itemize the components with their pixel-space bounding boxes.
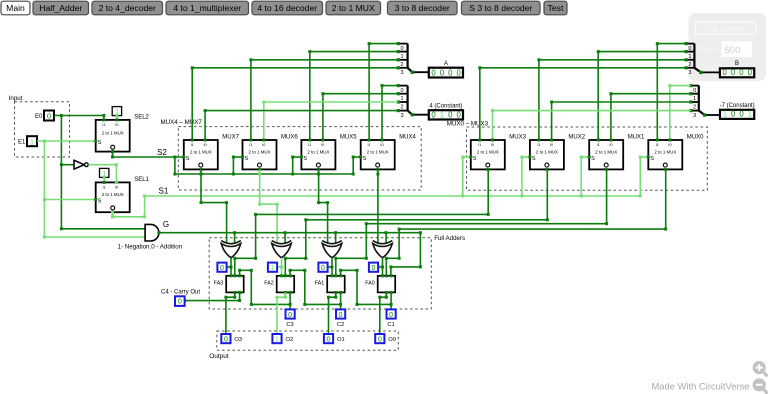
wire FA0 carry-out to C1 LED — [390, 292, 392, 309]
svg-text:0: 0 — [723, 68, 728, 77]
wire MUX3 output to FA3 B input — [487, 169, 489, 214]
svg-text:FA1: FA1 — [315, 281, 324, 287]
svg-text:O0: O0 — [388, 337, 396, 343]
svg-text:0: 0 — [321, 265, 325, 272]
svg-text:1: 1 — [748, 110, 752, 119]
wire G to FA0 carry-in — [391, 233, 421, 276]
2-to-1 MUX MUX7 — [184, 140, 218, 169]
input E1 — [27, 136, 37, 146]
svg-text:S: S — [186, 156, 190, 162]
wire S2 riser to MUX5 S — [292, 157, 294, 174]
svg-text:0: 0 — [220, 265, 224, 272]
svg-text:Input: Input — [9, 95, 23, 102]
wire tap to XOR1 value LED — [327, 266, 332, 268]
svg-text:I0: I0 — [609, 143, 612, 147]
svg-text:2 to 1 MUX: 2 to 1 MUX — [477, 150, 499, 155]
svg-text:4 to 1_multiplexer: 4 to 1_multiplexer — [173, 3, 241, 13]
svg-text:Output: Output — [209, 353, 229, 360]
svg-text:S: S — [532, 156, 536, 162]
svg-text:G: G — [163, 220, 169, 229]
svg-text:2 to 1 MUX: 2 to 1 MUX — [367, 150, 389, 155]
svg-text:O2: O2 — [286, 337, 294, 343]
dashed box: Input region — [15, 102, 70, 157]
svg-text:Full Screen: Full Screen — [704, 23, 747, 33]
output LED xorval2 — [268, 263, 277, 272]
2-to-1 MUX MUX1 — [589, 140, 623, 169]
svg-text:A: A — [444, 61, 448, 67]
svg-text:3 to 8 decoder: 3 to 8 decoder — [395, 3, 450, 13]
svg-text:I1: I1 — [597, 143, 600, 147]
svg-text:3: 3 — [401, 70, 404, 76]
constant 1 (above SEL1) — [100, 168, 109, 177]
wire S2 riser to MUX4 S — [352, 157, 354, 174]
svg-text:1: 1 — [271, 265, 275, 272]
output LED xorval3 — [217, 263, 226, 272]
wire E0 to SEL2 I1 — [54, 115, 104, 117]
wire A bit0 to MUX4 I1 — [369, 43, 398, 45]
zoom out button — [753, 378, 768, 393]
svg-text:SEL2: SEL2 — [134, 114, 149, 120]
svg-text:0: 0 — [739, 68, 744, 77]
svg-text:Main: Main — [6, 3, 25, 13]
2-to-1 MUX SEL2 — [96, 120, 130, 152]
svg-text:0: 0 — [448, 68, 453, 77]
svg-text:B: B — [735, 61, 739, 67]
svg-text:Made With CircuitVerse: Made With CircuitVerse — [652, 380, 750, 391]
svg-text:S: S — [363, 156, 367, 162]
svg-text:S: S — [303, 156, 307, 162]
wire S1 bus to right MUX group — [145, 195, 641, 197]
2-to-1 MUX MUX5 — [301, 140, 335, 169]
wire XOR1 output to FA1 A input — [331, 258, 333, 276]
svg-text:0: 0 — [178, 299, 182, 306]
full adder FA1 — [327, 276, 345, 293]
svg-text:C4 - Carry Out: C4 - Carry Out — [161, 290, 200, 296]
wire const1 to SEL1 I1 — [103, 177, 105, 182]
wire G tap to XOR4 input — [385, 233, 387, 244]
wire FA2 carry-out to C3 LED — [289, 292, 291, 309]
svg-text:I0: I0 — [491, 143, 494, 147]
svg-text:1: 1 — [275, 337, 279, 344]
svg-text:MUX3: MUX3 — [509, 135, 526, 141]
wire carry bus segment FA0.cout to FA1.cin — [357, 303, 391, 305]
svg-text:0: 0 — [327, 337, 331, 344]
svg-text:MUX7: MUX7 — [222, 135, 239, 141]
wire G tap to XOR1 input — [234, 233, 236, 244]
svg-text:S1: S1 — [159, 186, 169, 195]
wire carry bus segment FA2.cout to FA3.cin — [251, 303, 290, 305]
svg-text:0: 0 — [440, 68, 445, 77]
svg-text:S2: S2 — [157, 148, 167, 157]
svg-text:0: 0 — [748, 68, 753, 77]
wire S2 from SEL2 output to MUX7 S — [112, 152, 114, 157]
wire B bit2 to MUX2 I1 — [539, 59, 686, 61]
XOR gate X1 — [322, 243, 342, 257]
splitter for 4 (Constant) bus — [398, 85, 407, 87]
wire S1 riser to MUX2 S — [521, 157, 523, 196]
wire MUX4 output to XOR4 input — [377, 169, 379, 243]
dashed box: Full Adders region — [209, 238, 431, 309]
XOR gate X3 — [221, 243, 241, 257]
svg-text:2 to 1 MUX: 2 to 1 MUX — [332, 3, 375, 13]
svg-text:3: 3 — [688, 70, 691, 76]
wire MUX2 output to FA2 B input — [546, 169, 548, 219]
wire tap to XOR2 value LED — [277, 266, 282, 268]
output LED O1 — [324, 334, 333, 343]
input E0 — [44, 111, 54, 121]
svg-text:C1: C1 — [387, 322, 394, 328]
2-to-1 MUX MUX2 — [530, 140, 564, 169]
wire G tap to XOR2 input — [284, 233, 286, 244]
svg-text:I1: I1 — [478, 143, 481, 147]
svg-text:1: 1 — [440, 110, 444, 119]
svg-text:FA0: FA0 — [365, 281, 374, 287]
svg-text:2 to 1 MUX: 2 to 1 MUX — [102, 131, 124, 136]
wire E1 branch down to SEL1 S and AND gate — [43, 141, 45, 237]
2-to-1 MUX MUX4 — [361, 140, 395, 169]
overlay properties panel — [689, 13, 767, 81]
svg-text:S: S — [650, 156, 654, 162]
svg-text:0: 0 — [448, 110, 453, 119]
AND gate G — [145, 224, 159, 241]
svg-text:S: S — [98, 199, 102, 205]
svg-text:2 to 1 MUX: 2 to 1 MUX — [307, 150, 329, 155]
svg-text:FA3: FA3 — [214, 281, 223, 287]
dashed box: Output region — [217, 331, 398, 350]
svg-text:S: S — [473, 156, 477, 162]
wire S1 riser to MUX3 S — [462, 157, 464, 196]
svg-text:3: 3 — [693, 113, 696, 119]
svg-text:2: 2 — [693, 104, 696, 110]
wire MUX5 output to XOR3 input — [319, 169, 328, 243]
wire S1 riser to MUX0 S — [639, 157, 641, 196]
wire 4const bit2 to MUX6 I0 (value 1) — [264, 101, 399, 103]
wire S1 riser to MUX1 S — [580, 157, 582, 196]
zoom in button — [753, 361, 768, 376]
output LED C3 — [286, 309, 295, 318]
splitter for -7 (Constant) bus — [691, 85, 699, 87]
wire S2 bus lower run — [174, 157, 176, 174]
svg-text:S 3 to 8 decoder: S 3 to 8 decoder — [469, 3, 532, 13]
dashed box: MUX0 - MUX3 region — [467, 127, 708, 190]
wire B bit3 to MUX3 I1 — [480, 67, 686, 69]
svg-text:I1: I1 — [656, 143, 659, 147]
wire 4const bit1 to MUX5 I0 — [323, 93, 398, 95]
wire MUX6 output to XOR2 input (value 1) — [260, 169, 277, 243]
full adder FA2 — [277, 276, 295, 293]
svg-text:MUX2: MUX2 — [568, 135, 585, 141]
svg-text:MUX0: MUX0 — [687, 135, 704, 141]
splitter for A bus — [398, 43, 407, 45]
svg-text:E0: E0 — [35, 114, 43, 120]
svg-text:2 to 1 MUX: 2 to 1 MUX — [595, 150, 617, 155]
output LED C4 carry out — [175, 296, 185, 306]
svg-text:0: 0 — [431, 110, 436, 119]
svg-text:MUX4: MUX4 — [399, 135, 416, 141]
svg-text:I0: I0 — [115, 123, 118, 127]
wire FA0 sum to output O0 — [380, 292, 387, 334]
output LED C2 — [336, 309, 345, 318]
svg-text:2 to 1 MUX: 2 to 1 MUX — [536, 150, 558, 155]
svg-text:0: 0 — [372, 265, 376, 272]
XOR gate X0 — [373, 243, 393, 257]
svg-text:S: S — [98, 140, 102, 146]
svg-text:SEL1: SEL1 — [134, 177, 149, 183]
svg-text:4 to 16 decoder: 4 to 16 decoder — [257, 3, 317, 13]
svg-text:MUX4 – MUX7: MUX4 – MUX7 — [161, 119, 203, 126]
2-to-1 MUX MUX6 — [243, 140, 277, 169]
wire -7 bit0 to MUX0 I0 (value 1) — [670, 85, 691, 87]
wire B bit1 to MUX1 I1 — [598, 51, 686, 53]
svg-text:FA2: FA2 — [264, 281, 273, 287]
svg-text:I1: I1 — [102, 123, 105, 127]
svg-text:4 (Constant): 4 (Constant) — [429, 104, 462, 110]
svg-text:I1: I1 — [537, 143, 540, 147]
output LED O0 — [375, 334, 384, 343]
svg-text:MUX1: MUX1 — [628, 135, 645, 141]
wire 4const bit0 to MUX4 I0 — [382, 85, 398, 87]
svg-text:C3: C3 — [286, 322, 293, 328]
svg-text:S: S — [244, 156, 248, 162]
wire A bit2 to MUX6 I1 — [251, 59, 398, 61]
output LED xorval1 — [318, 263, 327, 272]
wire B bit0 to MUX0 I1 — [657, 43, 686, 45]
full adder FA0 — [378, 276, 396, 293]
svg-text:I1: I1 — [103, 186, 106, 190]
svg-text:S: S — [591, 156, 595, 162]
svg-text:0: 0 — [378, 337, 382, 344]
2-to-1 MUX MUX3 — [471, 140, 505, 169]
wire -7 bit3 to MUX3 I0 (value 1) — [493, 110, 691, 112]
svg-text:Full Adders: Full Adders — [434, 235, 465, 242]
svg-text:1- Negation,0 - Addition: 1- Negation,0 - Addition — [118, 244, 183, 251]
wire XOR3 output to FA3 A input — [230, 258, 232, 276]
svg-text:0: 0 — [456, 110, 461, 119]
wire S2 riser to MUX6 S — [232, 157, 234, 174]
svg-text:0: 0 — [339, 312, 343, 319]
2-to-1 MUX SEL1 — [96, 182, 130, 212]
svg-text:Half_Adder: Half_Adder — [39, 3, 82, 13]
svg-text:I0: I0 — [115, 186, 118, 190]
wire FA2 sum to output O2 — [277, 292, 285, 334]
svg-text:0: 0 — [731, 68, 736, 77]
svg-text:1: 1 — [30, 137, 34, 146]
svg-text:MUX5: MUX5 — [340, 135, 357, 141]
svg-text:I0: I0 — [321, 143, 324, 147]
wire MUX7 output to XOR1 input — [201, 169, 227, 243]
svg-text:2 to 1 MUX: 2 to 1 MUX — [190, 150, 212, 155]
wire const1 to SEL2 I0 — [116, 116, 118, 120]
svg-text:MUX0 – MUX3: MUX0 – MUX3 — [447, 121, 489, 128]
svg-text:-7 (Constant): -7 (Constant) — [720, 103, 755, 109]
svg-text:0: 0 — [456, 68, 461, 77]
svg-text:1: 1 — [723, 110, 727, 119]
output LED O2 — [272, 334, 281, 343]
svg-text:0: 0 — [731, 110, 736, 119]
svg-text:0: 0 — [431, 68, 436, 77]
wire FA3 carry-out to C4 LED — [239, 292, 241, 300]
svg-text:2 to 1 MUX: 2 to 1 MUX — [249, 150, 271, 155]
svg-text:Test: Test — [548, 3, 564, 13]
svg-text:2 to 1 MUX: 2 to 1 MUX — [654, 150, 676, 155]
svg-text:500: 500 — [725, 45, 741, 56]
NOT gate — [74, 160, 84, 169]
svg-text:I1: I1 — [249, 143, 252, 147]
svg-text:I0: I0 — [204, 143, 207, 147]
svg-text:0: 0 — [288, 312, 292, 319]
wire G bus along XOR row — [159, 232, 421, 234]
svg-text:0: 0 — [739, 110, 744, 119]
svg-text:0: 0 — [47, 112, 51, 121]
wire -7 bit1 to MUX1 I0 — [611, 93, 691, 95]
svg-text:I0: I0 — [262, 143, 265, 147]
svg-text:I0: I0 — [668, 143, 671, 147]
wire XOR2 output to FA2 A input — [281, 258, 283, 276]
wire MUX1 output to FA1 B input — [606, 169, 608, 223]
svg-text:I0: I0 — [550, 143, 553, 147]
svg-text:0: 0 — [224, 337, 228, 344]
tab bar — [1, 1, 30, 15]
wire A bit1 to MUX5 I1 — [310, 51, 399, 53]
wire carry bus segment FA1.cout to FA2.cin — [305, 303, 341, 305]
output LED xorval0 — [369, 263, 378, 272]
svg-text:2: 2 — [401, 104, 404, 110]
svg-text:E1: E1 — [18, 140, 26, 146]
wire -7 bit2 to MUX2 I0 — [552, 101, 691, 103]
constant 1 (above SEL2) — [112, 107, 121, 116]
2-to-1 MUX MUX0 — [648, 140, 682, 169]
XOR gate X2 — [272, 243, 292, 257]
svg-text:2 to 1 MUX: 2 to 1 MUX — [102, 192, 124, 197]
svg-text:C2: C2 — [337, 322, 344, 328]
svg-text:O3: O3 — [234, 337, 242, 343]
svg-text:I1: I1 — [308, 143, 311, 147]
dashed box: MUX4 - MUX7 region — [178, 127, 421, 190]
svg-text:I1: I1 — [191, 143, 194, 147]
svg-text:3: 3 — [401, 113, 404, 119]
wire A bit3 to MUX7 I1 — [192, 67, 398, 69]
splitter for B bus — [686, 43, 694, 45]
wire FA1 carry-out to C2 LED — [340, 292, 342, 309]
svg-text:2 to 4_decoder: 2 to 4_decoder — [99, 3, 156, 13]
wire FA1 sum to output O1 — [329, 292, 336, 334]
wire E0 branch down to NOT gate and AND gate — [60, 116, 62, 229]
wire G tap to XOR3 input — [335, 233, 337, 244]
wire tap to XOR3 value LED — [226, 266, 231, 268]
wire E1 to SEL2 S — [37, 140, 96, 142]
wire NOT output to SEL1 I0 (value 1) — [88, 164, 116, 166]
output LED C1 — [387, 309, 396, 318]
wire 4const bit3 to MUX7 I0 — [205, 110, 398, 112]
wire tap to XOR0 value LED — [378, 266, 383, 268]
svg-text:O1: O1 — [337, 337, 345, 343]
output LED O3 — [221, 334, 230, 343]
svg-text:I1: I1 — [368, 143, 371, 147]
svg-text:I0: I0 — [380, 143, 383, 147]
svg-text:MUX6: MUX6 — [281, 135, 298, 141]
wire XOR0 output to FA0 A input — [382, 258, 384, 276]
wire MUX0 output to FA0 B input — [665, 169, 667, 229]
full adder FA3 — [226, 276, 244, 293]
svg-text:Time:: Time: — [696, 45, 719, 56]
wire S1 from SEL1 output — [112, 212, 114, 217]
wire FA3 sum to output O3 — [226, 292, 235, 334]
svg-text:0: 0 — [389, 312, 393, 319]
